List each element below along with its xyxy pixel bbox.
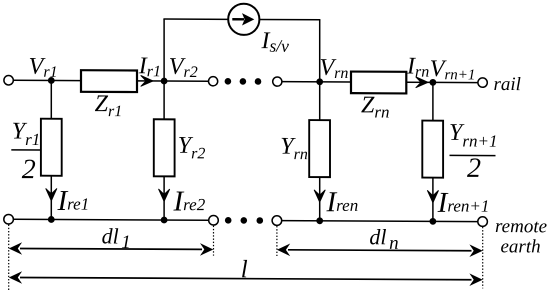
svg-text:Vr1: Vr1 bbox=[29, 54, 58, 81]
wire shunt Yrn bottom bbox=[319, 177, 321, 221]
current arrow Iren head bbox=[314, 190, 325, 202]
node Vrn+1 dot bbox=[430, 79, 437, 86]
svg-text:Yr2: Yr2 bbox=[178, 133, 206, 163]
ellipsis dots top row bbox=[225, 78, 232, 85]
dimension dln right arrowhead bbox=[469, 244, 482, 257]
current source arrowhead bbox=[242, 13, 254, 25]
wire top loop right vertical bbox=[319, 20, 321, 82]
wire shunt Yr1 top bbox=[50, 80, 52, 118]
current source arrow shaft bbox=[232, 18, 244, 20]
wire shunt Yr1 bottom bbox=[50, 176, 52, 220]
wire rail: Zr1 to node Vr2 bbox=[137, 80, 164, 82]
wire earth right segment bbox=[282, 220, 478, 223]
svg-text:2: 2 bbox=[22, 154, 36, 185]
svg-text:Zr1: Zr1 bbox=[95, 91, 123, 120]
dimension dln shaft bbox=[288, 249, 472, 252]
svg-text:Vrn+1: Vrn+1 bbox=[430, 56, 476, 83]
wire rail: Vr2 to gap bbox=[164, 80, 208, 82]
terminal left rail bbox=[4, 76, 13, 85]
fraction bar Yrn+1/2 bbox=[450, 154, 496, 156]
extension dotted line left bbox=[8, 225, 10, 291]
wire shunt Yr2 bottom bbox=[163, 176, 165, 220]
svg-text:Ire1: Ire1 bbox=[57, 185, 90, 217]
wire shunt Yrn+1 bottom bbox=[432, 178, 434, 222]
svg-text:remote: remote bbox=[495, 216, 547, 237]
extension dotted line dln left bbox=[276, 226, 278, 256]
node earth 2 dot bbox=[161, 217, 168, 224]
svg-text:Iren+1: Iren+1 bbox=[437, 187, 490, 219]
wire top loop top-left segment bbox=[163, 18, 228, 20]
wire shunt Yr2 top bbox=[163, 81, 165, 119]
resistor Zr1 box bbox=[81, 70, 137, 92]
dimension dl1 left arrowhead bbox=[9, 242, 22, 255]
current arrow Iren+1 head bbox=[427, 190, 438, 202]
svg-text:Ire2: Ire2 bbox=[173, 186, 206, 218]
wire shunt Yrn+1 top bbox=[432, 82, 434, 120]
svg-text:Yrn+1: Yrn+1 bbox=[449, 120, 497, 151]
current arrow Irn head bbox=[416, 77, 428, 88]
resistor Zrn box bbox=[351, 72, 406, 94]
current arrow Ire1 head bbox=[46, 188, 57, 200]
node Vrn dot bbox=[316, 78, 323, 85]
svg-text:Iren: Iren bbox=[326, 186, 359, 218]
gap terminal left (bottom row) bbox=[209, 215, 219, 225]
wire rail: Zrn to node Vrn+1 bbox=[406, 81, 433, 83]
current arrow Ire2 head bbox=[159, 189, 170, 201]
current source U1 circle bbox=[228, 4, 259, 35]
svg-text:2: 2 bbox=[467, 153, 481, 184]
gap terminal left (top row) bbox=[209, 77, 218, 86]
admittance Yrn box bbox=[309, 120, 330, 177]
dimension l right arrowhead bbox=[469, 273, 482, 286]
svg-text:Vrn: Vrn bbox=[320, 55, 349, 82]
node Vr1 dot bbox=[48, 77, 55, 84]
wire rail: Vrn+1 to right terminal bbox=[433, 81, 478, 83]
node Vr2 dot bbox=[161, 78, 168, 85]
terminal right earth bbox=[478, 217, 488, 227]
svg-text:Yr1: Yr1 bbox=[12, 118, 40, 149]
admittance Yrn+1/2 box bbox=[422, 121, 443, 178]
svg-text:Is/v: Is/v bbox=[261, 28, 290, 56]
admittance Yr2 box bbox=[154, 119, 175, 176]
extension dotted line right bbox=[482, 227, 484, 289]
dimension dln left arrowhead bbox=[277, 243, 290, 256]
node earth 1 dot bbox=[48, 216, 55, 223]
ellipsis dots bottom row bbox=[225, 217, 232, 224]
svg-text:earth: earth bbox=[501, 236, 541, 257]
wire shunt Yrn top bbox=[319, 82, 321, 120]
wire top loop top-right segment bbox=[259, 18, 321, 20]
wire top loop left vertical bbox=[163, 19, 165, 81]
svg-text:Vr2: Vr2 bbox=[169, 54, 198, 81]
dimension dl1 shaft bbox=[20, 247, 202, 250]
svg-text:l: l bbox=[241, 256, 248, 283]
fraction bar Yr1/2 bbox=[11, 149, 40, 151]
gap terminal right (top row) bbox=[273, 77, 282, 86]
svg-text:rail: rail bbox=[494, 74, 521, 95]
wire rail: left terminal to Zr1 bbox=[13, 79, 81, 81]
gap terminal right (bottom row) bbox=[272, 216, 282, 226]
admittance Yr1/2 box bbox=[41, 119, 62, 176]
terminal right rail bbox=[478, 78, 487, 87]
node earth n+1 dot bbox=[430, 218, 437, 225]
current arrow Ir1 head bbox=[141, 75, 153, 86]
wire earth left segment bbox=[13, 218, 209, 221]
wire rail: gap to Zrn bbox=[282, 81, 351, 83]
dimension dl1 right arrowhead bbox=[200, 243, 213, 256]
terminal left earth bbox=[4, 214, 14, 224]
extension dotted line dl1 right bbox=[213, 226, 215, 256]
svg-text:Yrn: Yrn bbox=[280, 134, 308, 164]
svg-text:Irn: Irn bbox=[406, 54, 429, 81]
svg-text:Zrn: Zrn bbox=[361, 92, 389, 121]
dimension l shaft bbox=[20, 277, 472, 279]
node earth n dot bbox=[316, 217, 323, 224]
svg-text:Ir1: Ir1 bbox=[138, 53, 161, 80]
dimension l left arrowhead bbox=[9, 271, 22, 284]
